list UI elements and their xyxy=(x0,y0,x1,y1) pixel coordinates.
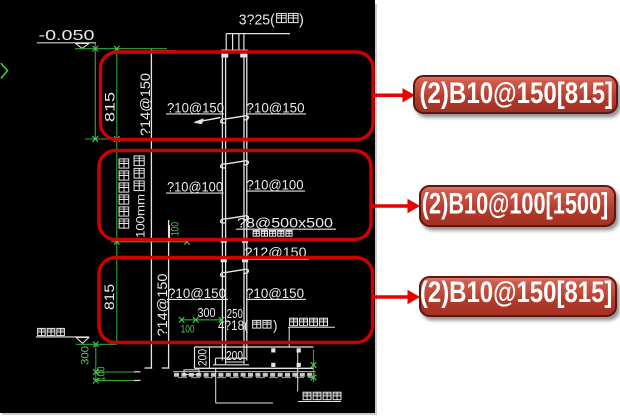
svg-text:?10@100: ?10@100 xyxy=(247,177,304,193)
svg-text:): ) xyxy=(299,12,304,28)
svg-text:?14@150: ?14@150 xyxy=(155,274,170,337)
svg-text:100: 100 xyxy=(96,367,108,382)
svg-text:?14@150: ?14@150 xyxy=(138,73,153,136)
svg-text:100mm: 100mm xyxy=(136,194,148,238)
svg-text:300: 300 xyxy=(80,346,92,365)
svg-text:(2)B10@100[1500]: (2)B10@100[1500] xyxy=(422,188,609,221)
svg-text:200: 200 xyxy=(226,349,243,363)
svg-text:-0.050: -0.050 xyxy=(39,27,95,44)
svg-text:?8@500x500: ?8@500x500 xyxy=(237,214,333,230)
svg-text:(2)B10@150[815]: (2)B10@150[815] xyxy=(420,77,614,110)
svg-text:(2)B10@150[815]: (2)B10@150[815] xyxy=(420,276,613,309)
svg-text:): ) xyxy=(273,318,278,333)
svg-text:?10@150: ?10@150 xyxy=(246,285,304,301)
svg-text:?10@150: ?10@150 xyxy=(168,285,226,301)
svg-text:100: 100 xyxy=(170,222,182,236)
svg-text:?10@150: ?10@150 xyxy=(247,99,305,115)
svg-text:200: 200 xyxy=(196,349,210,366)
svg-text:?10@100: ?10@100 xyxy=(167,179,223,195)
svg-text:?10@150: ?10@150 xyxy=(167,99,224,115)
svg-text:3?25(: 3?25( xyxy=(239,12,275,28)
svg-text:300: 300 xyxy=(198,305,216,320)
svg-text:100: 100 xyxy=(181,324,195,336)
svg-text:815: 815 xyxy=(103,92,118,122)
svg-text:815: 815 xyxy=(102,284,117,310)
